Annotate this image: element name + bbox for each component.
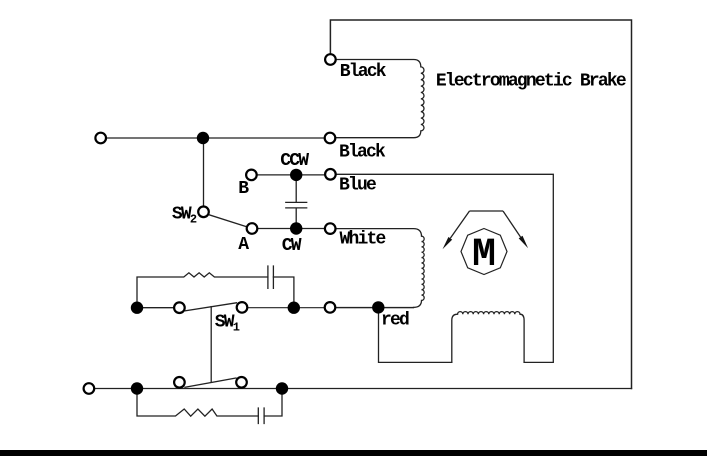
node junction top row <box>197 132 209 144</box>
switch SW1 mechanical link <box>210 307 212 382</box>
terminal B <box>246 170 257 181</box>
terminal White <box>325 223 336 234</box>
svg-text:CW: CW <box>282 236 302 256</box>
wire node A to node CW to White terminal <box>257 228 325 230</box>
motor main winding (White lead) <box>335 229 424 308</box>
wire node B to node CCW to Blue terminal <box>256 174 325 176</box>
terminal A <box>247 223 258 234</box>
capacitor running (between CCW and CW) <box>286 181 307 223</box>
wire top-left row (L to Black terminal) <box>106 137 325 139</box>
terminal Black top <box>325 54 336 65</box>
wire SW2 common drop <box>203 144 205 207</box>
node CW <box>290 222 302 234</box>
terminal bottom-left <box>84 383 95 394</box>
capacitor bottom bypass <box>258 408 264 424</box>
wire Blue lead to motor <box>335 174 553 362</box>
svg-text:White: White <box>340 230 386 250</box>
node SW1 top-right <box>288 302 300 314</box>
switch SW1 top blade <box>186 303 237 311</box>
svg-text:Black: Black <box>340 62 387 82</box>
electromagnetic brake coil <box>335 60 424 138</box>
node SW1 bottom-left <box>131 382 143 394</box>
switch SW1 bottom blade <box>185 378 236 387</box>
rotation arrows <box>450 211 520 238</box>
capacitor top bypass <box>268 266 274 288</box>
svg-text:M: M <box>472 233 496 278</box>
wire top bypass right <box>273 277 294 302</box>
wire top supply loop <box>330 20 631 389</box>
terminal SW1 top contact 1 <box>174 302 185 313</box>
terminal SW1 bottom contact 2 <box>236 377 247 388</box>
terminal Blue <box>325 169 336 180</box>
wire bottom row main line <box>94 388 632 390</box>
wire SW1 top row left <box>143 307 174 309</box>
svg-text:Blue: Blue <box>339 176 376 196</box>
terminal SW1 top contact 2 <box>237 302 248 313</box>
open terminals <box>84 54 336 394</box>
svg-text:red: red <box>381 311 409 331</box>
motor letter M <box>472 233 496 278</box>
svg-text:Electromagnetic Brake: Electromagnetic Brake <box>436 72 626 92</box>
svg-text:CCW: CCW <box>280 151 309 171</box>
junction dots <box>131 132 385 395</box>
terminal Black mid <box>325 133 336 144</box>
wire red row <box>335 307 414 309</box>
terminal top-left <box>95 133 106 144</box>
svg-text:Black: Black <box>339 142 386 162</box>
terminal SW2 common <box>198 207 209 218</box>
wire bottom bypass right <box>264 395 282 416</box>
node CCW <box>290 169 302 181</box>
node red <box>372 301 384 313</box>
wire SW1 top row right <box>247 307 414 309</box>
bottom black bar <box>0 450 707 456</box>
node SW1 top-left <box>131 302 143 314</box>
terminal red row <box>325 302 336 313</box>
motor M1 <box>461 229 507 275</box>
wire red node down to aux winding <box>379 307 452 362</box>
terminal SW1 bottom contact 1 <box>174 377 185 388</box>
node SW1 bottom-right <box>276 382 288 394</box>
resistor bottom bypass with wires <box>137 395 258 417</box>
motor auxiliary winding <box>452 312 524 363</box>
switch SW2 blade <box>208 214 248 227</box>
resistor top bypass with wires <box>137 273 268 302</box>
